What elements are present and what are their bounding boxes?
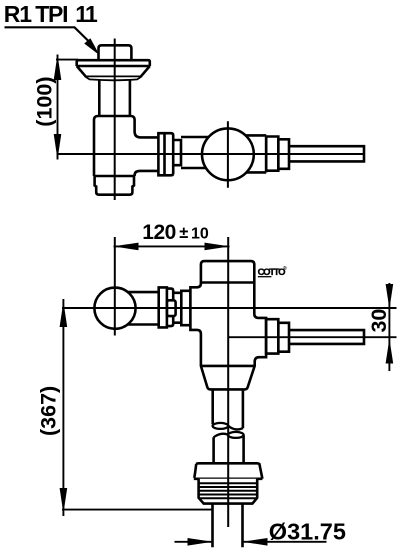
- bottom pipe: [213, 504, 243, 548]
- body lower edge: [201, 365, 255, 368]
- dimension (100) line: [57, 55, 59, 160]
- flange band and cone: [77, 60, 150, 76]
- outlet block 2: [278, 323, 289, 352]
- down pipe upper: [213, 389, 243, 428]
- svg-text:30: 30: [367, 309, 391, 333]
- valve body (front view): [190, 261, 266, 389]
- dimension 31.75 line left: [175, 541, 213, 543]
- valve body (top view): [94, 116, 158, 176]
- outlet pipe centerline extension: [228, 336, 397, 338]
- push button circle: [94, 288, 135, 329]
- svg-text:(100): (100): [32, 76, 56, 126]
- dimension (367) arrow up: [60, 302, 68, 328]
- dimension 31.75 arrow left-pointing: [242, 538, 267, 546]
- thread line 4: [199, 494, 258, 496]
- flange bottom rim top edge: [85, 75, 142, 77]
- outlet block 1: [266, 319, 278, 353]
- thread block: [199, 479, 258, 504]
- cone flange: [194, 463, 263, 479]
- pipe break lower left arc: [214, 434, 229, 438]
- body cap bottom edge: [201, 281, 254, 284]
- dimension 30 top extension / button centerline: [62, 307, 397, 309]
- pipe break upper right arc: [228, 426, 243, 430]
- COTTO underline: [258, 276, 272, 278]
- ring A right of circle: [246, 135, 267, 172]
- svg-text:10: 10: [191, 226, 209, 243]
- coupling neck (front view): [173, 293, 181, 323]
- svg-text:TPI: TPI: [35, 1, 67, 27]
- body bottom cap: [95, 176, 134, 195]
- outlet thin pipe (top view): [289, 146, 364, 161]
- dimension 30 arrow down: [386, 284, 394, 309]
- svg-text:R1: R1: [4, 1, 32, 27]
- thread line 1: [199, 482, 258, 484]
- top view vertical centerline (inlet axis): [114, 39, 116, 201]
- dimension (100) arrow up: [54, 55, 62, 81]
- body bottom edge: [94, 175, 135, 178]
- thread line 2: [199, 486, 258, 488]
- inlet cap (threaded end): [99, 45, 132, 60]
- button vertical centerline: [114, 237, 116, 336]
- dimension 120 arrow right: [205, 243, 230, 251]
- down pipe lower: [214, 435, 244, 463]
- inlet connector: [181, 291, 190, 325]
- coupling nut (front view): [159, 287, 174, 327]
- ring B: [266, 137, 278, 171]
- dimension (100) extension line top: [56, 59, 78, 61]
- top view horizontal centerline: [57, 153, 365, 155]
- dimension (100) arrow down: [54, 134, 62, 160]
- dimension 31.75 line right: [243, 541, 327, 543]
- leader line for R1 TPI 11: [5, 27, 92, 43]
- inlet pipe: [99, 80, 130, 116]
- button pipe: [122, 292, 159, 324]
- svg-text:Ø31.75: Ø31.75: [269, 519, 346, 545]
- ring C: [278, 139, 289, 169]
- svg-text:11: 11: [75, 1, 98, 27]
- thread line 5: [200, 497, 257, 499]
- adjuster collar: [167, 300, 176, 316]
- top view circle vertical centerline: [227, 121, 229, 188]
- dimension (367) bottom extension line: [62, 509, 212, 511]
- dimension 120 line: [114, 245, 230, 247]
- flange band bottom edge: [77, 65, 150, 68]
- coupling neck: [173, 140, 181, 165]
- dimension 120 arrow left: [113, 243, 138, 251]
- dimension (367) arrow down: [60, 488, 68, 514]
- coupling nut: [158, 133, 173, 175]
- svg-text:±: ±: [179, 224, 188, 242]
- svg-text:®: ®: [283, 265, 287, 272]
- dimension 30 arrow up: [386, 339, 394, 364]
- front view main vertical centerline: [227, 237, 229, 527]
- outlet thin pipe (front view): [289, 330, 364, 344]
- pipe to valve head: [181, 137, 212, 168]
- thread line 3: [199, 490, 258, 492]
- pipe break lower right lens: [228, 432, 244, 438]
- leader arrowhead: [84, 38, 99, 55]
- dimension 30 line: [388, 283, 390, 371]
- dimension (367) line: [62, 299, 64, 516]
- valve head circle: [202, 128, 254, 180]
- pipe break upper left lens: [213, 423, 229, 429]
- svg-text:120: 120: [142, 221, 176, 244]
- flange bottom rim lower edge: [85, 76, 142, 80]
- dimension 31.75 arrow right-pointing: [188, 538, 213, 546]
- svg-text:(367): (367): [37, 386, 61, 436]
